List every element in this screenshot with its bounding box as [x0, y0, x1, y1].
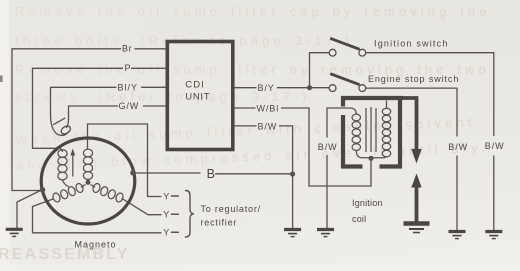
wire: B/Y junction up to ignition switch: [310, 53, 330, 88]
high tension lead to spark plug: [401, 98, 422, 222]
wire P: label left, down, into magneto source coil top: [33, 68, 123, 148]
wire: far right B/W drop lower part: [493, 156, 495, 230]
ground: engine stop B/W: [449, 230, 466, 233]
wire W/Bl: label right, down, under coil to primary bottom: [282, 108, 372, 186]
svg-text:B/W: B/W: [448, 142, 468, 152]
svg-text:Magneto: Magneto: [75, 240, 117, 250]
wire B: label to B/W ground wire junction: [216, 173, 293, 175]
ground: spark plug: [404, 221, 430, 226]
wire: ignition switch to far right B/W drop: [366, 53, 494, 136]
wire B/Y: CDI pin to label: [233, 87, 256, 89]
magneto lower-left coil: [75, 182, 85, 193]
svg-text:Ignition switch: Ignition switch: [374, 38, 449, 48]
svg-text:W/Bl: W/Bl: [257, 103, 280, 113]
node: B wire / B-W ground junction: [290, 171, 295, 176]
CDI unit box U1: [167, 42, 233, 150]
pickup coil P1 (hook loop with core tick): [51, 112, 72, 136]
wire B: magneto right node to label: [133, 172, 200, 174]
wire Br: label left, down left edge, to magneto left node: [12, 49, 121, 191]
engine stop switch S2: [329, 74, 365, 92]
svg-text:B/W: B/W: [258, 121, 278, 131]
wire B/W: label right then down to ground, crossing B junction: [280, 126, 293, 228]
arrowhead of rotation arrow: [70, 149, 75, 156]
ground: CDI B/W: [284, 228, 301, 231]
svg-text:To regulator/: To regulator/: [201, 204, 261, 214]
svg-text:Bl/Y: Bl/Y: [118, 83, 139, 93]
wire: right B/W drop lower part: [456, 156, 458, 230]
wire: Y2 lead from lower-right coil: [122, 199, 161, 215]
primary winding: [352, 114, 360, 121]
brace to regulator/rectifier: [186, 191, 195, 238]
spark gap upper electrode arrow: [411, 149, 421, 164]
secondary winding: [382, 108, 390, 115]
node: coil common terminal: [368, 156, 373, 161]
wire B/W ignition coil primary top feed: [327, 108, 356, 114]
magneto source coil (upper left): [59, 148, 63, 152]
magneto middle coil: [83, 149, 92, 157]
svg-text:B/Y: B/Y: [258, 83, 275, 93]
wire: engine stop switch to right B/W drop: [366, 88, 457, 136]
svg-text:UNIT: UNIT: [185, 92, 210, 103]
ground: magneto frame: [6, 228, 23, 231]
core lines: [365, 108, 367, 152]
wire: magneto left node to ground: [17, 190, 43, 229]
spark gap lower electrode arrow: [411, 174, 421, 188]
magneto lower-right coil: [92, 182, 102, 193]
svg-text:B/W: B/W: [485, 141, 505, 151]
svg-text:Ignition: Ignition: [352, 198, 383, 208]
wire: magneto mid coil top out to Y1: [88, 124, 162, 197]
wire W/Bl: CDI pin to label: [233, 107, 255, 109]
Y2 dash: [172, 213, 179, 215]
svg-text:Br: Br: [122, 44, 132, 54]
node: B/Y junction: [307, 85, 312, 90]
ignition switch S1: [329, 38, 365, 56]
svg-text:P: P: [125, 63, 132, 73]
wire B/W: CDI pin to label: [233, 125, 256, 127]
svg-text:Y: Y: [163, 210, 170, 220]
paper edge strips: [0, 0, 9, 271]
node: magneto right junction (B): [130, 170, 136, 176]
wire P run: label to CDI pin: [132, 67, 168, 69]
wire G/W: label left, down to pickup coil: [69, 106, 118, 113]
svg-text:B: B: [207, 167, 215, 181]
wire Bl/Y: label left, down to pickup coil: [51, 87, 117, 115]
ground: ignition coil B/W: [317, 228, 334, 231]
wire Bl/Y run: label to CDI pin: [142, 86, 168, 88]
svg-text:coil: coil: [352, 214, 366, 224]
svg-text:Engine stop switch: Engine stop switch: [368, 74, 459, 84]
wire G/W run: label to CDI pin: [144, 105, 168, 107]
svg-text:Y: Y: [163, 192, 170, 202]
node: magneto star point: [86, 180, 91, 185]
wire Br run: label to CDI pin: [135, 48, 167, 50]
ignition coil windings: [352, 101, 391, 158]
svg-text:G/W: G/W: [119, 101, 140, 111]
svg-text:CDI: CDI: [185, 80, 205, 91]
svg-text:B/W: B/W: [318, 142, 338, 152]
rotation arrow: [72, 155, 74, 177]
magneto: [41, 138, 135, 224]
wire B/Y: label to junction and engine stop switch: [278, 87, 330, 89]
wire B/W coil: down to ground (label gap): [326, 108, 328, 137]
Y3 dash: [172, 231, 179, 233]
magneto stator circle: [41, 138, 135, 224]
ground: ignition switch B/W: [485, 230, 502, 233]
svg-text:Y: Y: [163, 228, 170, 238]
ignition coil T1 box: [341, 98, 403, 167]
wire: Y3 lead from lower-left coil: [33, 199, 162, 233]
svg-text:rectifier: rectifier: [201, 218, 238, 228]
Y1 dash: [172, 195, 179, 197]
node: magneto left junction: [40, 187, 46, 193]
